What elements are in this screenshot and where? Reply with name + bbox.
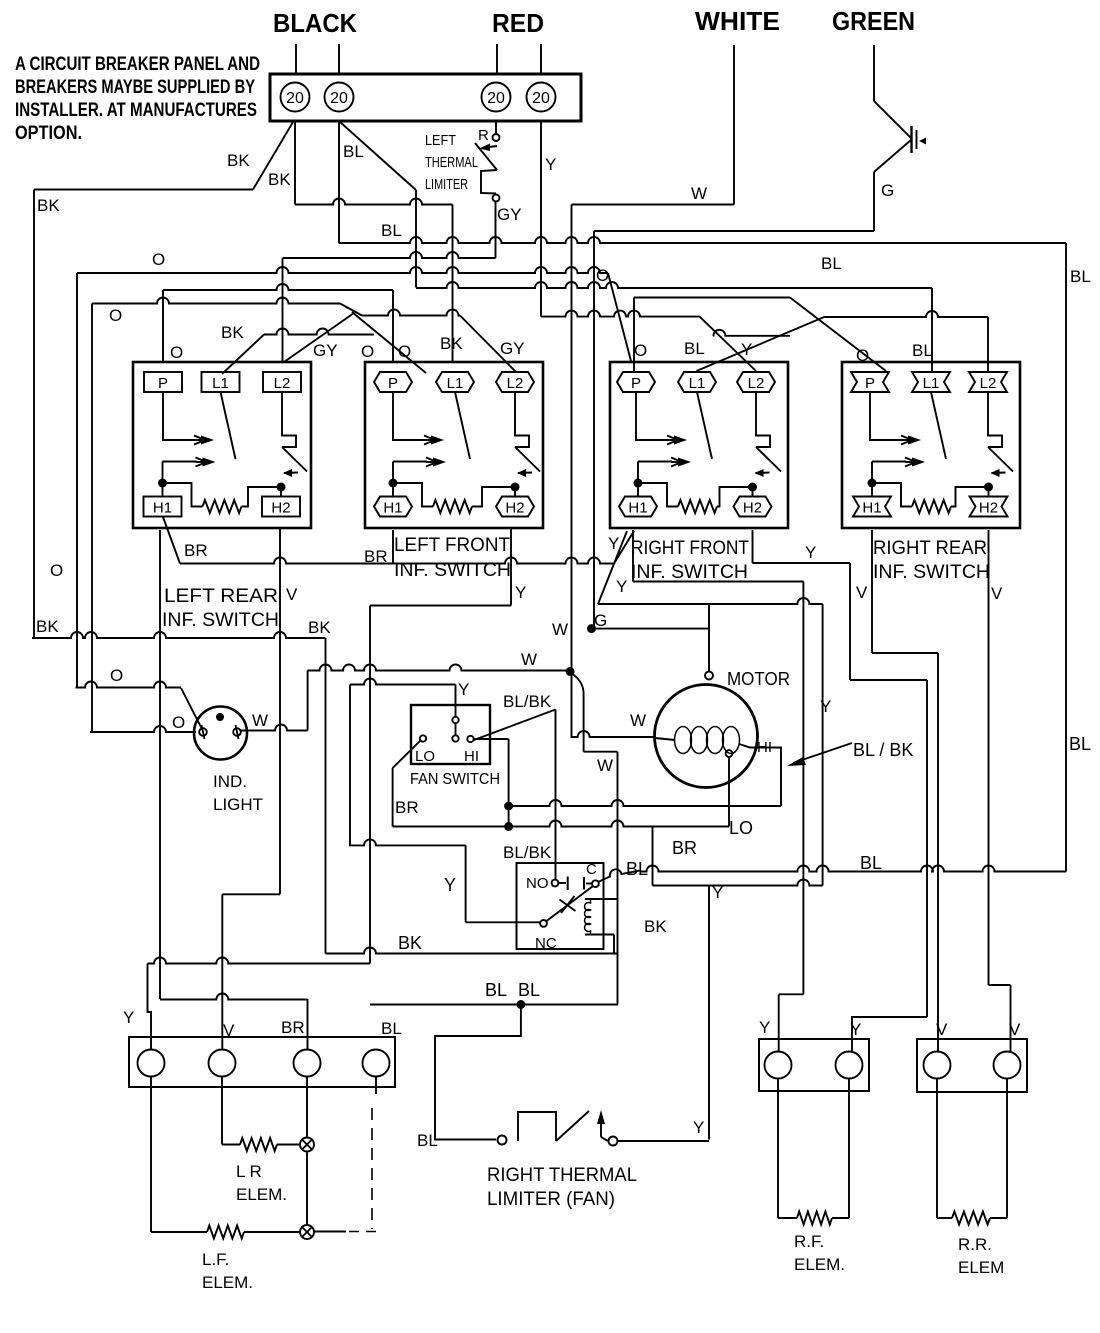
right thermal limiter right terminal (609, 1137, 618, 1146)
wire Y y684 line (350, 679, 456, 685)
right rear inf switch terminal L1 (912, 372, 950, 392)
left front inf switch H1 junction dot (389, 479, 398, 488)
indicator light label (213, 772, 263, 814)
svg-text:Y: Y (545, 155, 556, 174)
label BK (227, 151, 250, 170)
wire BL bus y243 (339, 237, 1067, 243)
indicator light filament dot (216, 713, 224, 721)
svg-text:BR: BR (395, 798, 419, 817)
terminal Y1 (765, 1052, 792, 1079)
wire G from GREEN down (873, 45, 875, 101)
motor label (727, 669, 790, 689)
label BL (381, 1019, 402, 1038)
svg-text:L1: L1 (689, 375, 706, 392)
wire Y diagonal from H1 right-front (598, 531, 627, 604)
wire O bus y303 (92, 298, 340, 304)
svg-text:BL / BK: BL / BK (853, 740, 913, 760)
motor coil bottom terminal (726, 750, 733, 757)
label O (172, 713, 185, 732)
wire Y from breaker 4 down (540, 121, 542, 317)
fan switch top terminal (452, 717, 458, 735)
left front inf switch heater resistor (433, 500, 472, 513)
wire H2 left-front down (510, 528, 512, 606)
wire x370 vertical (369, 606, 371, 964)
svg-text:W: W (630, 711, 646, 730)
svg-text:G: G (881, 181, 894, 200)
left front inf switch L1 blade (455, 392, 470, 459)
svg-text:W: W (252, 711, 268, 730)
wire Y to NC line (466, 921, 540, 923)
svg-text:BL: BL (518, 980, 540, 1000)
svg-text:R.F.: R.F. (794, 1232, 824, 1251)
right rear inf switch L1 blade (931, 392, 946, 459)
svg-text:20: 20 (330, 90, 348, 107)
wire V to LR elem (222, 1077, 240, 1145)
svg-text:GY: GY (500, 339, 525, 358)
wire BR bus y563 (180, 558, 614, 564)
wire Y y316 line (541, 311, 700, 317)
label BL (821, 254, 842, 273)
wire BL diagonal F to L2 right-front (700, 317, 757, 371)
wire diagonal D (352, 312, 426, 373)
label G (594, 611, 607, 630)
label V (1009, 1020, 1021, 1039)
L.F. element label (202, 1250, 253, 1292)
wire O diagonal to light (181, 688, 202, 729)
left rear inf switch L1 blade (221, 392, 236, 459)
svg-text:H2: H2 (271, 500, 290, 517)
left rear inf switch terminal H2 (262, 497, 300, 517)
svg-text:O: O (398, 342, 411, 361)
svg-text:Y: Y (805, 543, 816, 562)
left front inf switch box (365, 362, 543, 528)
left front inf switch H1 contact arm (393, 458, 446, 467)
wire Y from limiter (618, 1140, 710, 1142)
label Y (616, 577, 627, 596)
label BK (644, 917, 667, 936)
svg-text:WHITE: WHITE (695, 6, 780, 36)
svg-text:BL: BL (626, 859, 648, 879)
svg-text:BL: BL (485, 980, 507, 1000)
indicator light left lug (199, 725, 207, 739)
svg-text:P: P (865, 375, 875, 392)
fan switch center terminal (452, 735, 458, 741)
wire BL limiter feed (435, 1005, 521, 1140)
right front inf switch box (610, 362, 788, 528)
svg-text:RIGHT THERMAL: RIGHT THERMAL (487, 1165, 637, 1186)
R.F. element legs (778, 1079, 849, 1219)
wire L1 right-rear drop x932 (931, 288, 933, 372)
left rear inf switch H1 lead (162, 462, 164, 497)
left front inf switch resistor to H2 (472, 487, 515, 507)
junction dot BL (516, 1000, 525, 1009)
wire W from light (241, 725, 308, 731)
svg-text:LEFT FRONT: LEFT FRONT (394, 535, 510, 556)
right rear inf switch terminal H1 (853, 497, 891, 517)
svg-text:Y: Y (123, 1008, 134, 1027)
label O (110, 666, 123, 685)
wire BR drop x392 (392, 768, 394, 827)
right rear inf switch H1 junction dot (868, 479, 877, 488)
wire Y diagonal from L1 right-front (697, 317, 826, 371)
svg-text:RED: RED (492, 8, 544, 38)
motor winding (675, 727, 740, 754)
label BL (518, 980, 540, 1000)
wire G diagonal to ground (874, 101, 911, 138)
left front inf switch H2 lead (514, 487, 516, 497)
svg-text:O: O (110, 666, 123, 685)
wire Y jog to block1 (779, 994, 804, 1051)
right rear inf switch H1 contact arm (872, 458, 925, 467)
wire BLACK line 1 drop (295, 44, 297, 74)
wire O drop to P left-front (392, 290, 394, 362)
svg-text:RIGHT FRONT: RIGHT FRONT (631, 538, 749, 559)
right thermal limiter left terminal (498, 1136, 507, 1145)
relay NO terminal (552, 880, 559, 887)
left front inf switch H2 junction dot (511, 483, 520, 492)
svg-text:O: O (50, 561, 63, 580)
right front inf switch terminal H2 (734, 497, 772, 517)
right front inf switch H1 lead (637, 462, 639, 497)
left front inf switch terminal H1 (374, 497, 412, 517)
wire O bus y290 (163, 284, 393, 290)
label Y (515, 583, 526, 602)
wire BK-BL riser x618 (617, 752, 619, 1005)
wire Y y680 segment (850, 679, 927, 681)
relay C pivot (592, 880, 599, 887)
R.F. element label (794, 1232, 845, 1274)
svg-text:H1: H1 (383, 500, 402, 517)
svg-text:BL/BK: BL/BK (503, 692, 552, 711)
svg-text:BR: BR (364, 547, 388, 566)
svg-text:LEFT: LEFT (425, 132, 456, 149)
svg-text:W: W (521, 650, 537, 669)
wire BL-BK diagonal from HI (474, 710, 556, 741)
label O (634, 341, 647, 360)
motor right lead (739, 744, 781, 806)
right thermal limiter arrow (597, 1110, 608, 1141)
label BK (440, 334, 463, 353)
svg-text:BR: BR (184, 541, 208, 560)
svg-text:BK: BK (37, 196, 60, 215)
relay blade cross (560, 896, 576, 913)
wire O jog y687 (76, 682, 182, 688)
wire Y drop x465 (465, 845, 467, 922)
svg-text:R: R (478, 127, 489, 144)
wire y999 line (160, 994, 308, 1000)
R.R. element legs (937, 1079, 1007, 1219)
right rear inf switch H2 arrow (991, 469, 1006, 477)
wire G vertical to y231 (873, 172, 875, 231)
wire W from WHITE down (733, 45, 735, 205)
wire G diagonal from ground (874, 140, 911, 172)
label GY (500, 339, 525, 358)
wire GY diagonal to L2 left-front (460, 316, 516, 373)
wire W horizontal y204 (572, 204, 735, 206)
left front inf switch L2 blade (515, 447, 540, 472)
svg-text:BL: BL (860, 853, 882, 873)
fan switch box (411, 705, 490, 764)
svg-text:V: V (936, 1020, 948, 1039)
label O (361, 342, 374, 361)
svg-text:INF. SWITCH: INF. SWITCH (162, 610, 279, 631)
wire HI lead (474, 739, 509, 827)
wire BL y1004 line (370, 1004, 618, 1006)
svg-text:H2: H2 (505, 500, 524, 517)
terminal V2 (994, 1052, 1021, 1079)
left rear inf switch H2 junction dot (277, 483, 286, 492)
breaker 20A no.2 (325, 83, 354, 112)
svg-text:INSTALLER. AT MANUFACTURES: INSTALLER. AT MANUFACTURES (15, 100, 257, 121)
left front inf switch terminal L2 (496, 372, 534, 392)
junction dot G-W (587, 624, 596, 633)
terminal BR (294, 1050, 321, 1077)
svg-text:Y: Y (759, 1018, 770, 1037)
svg-text:LIMITER: LIMITER (425, 176, 468, 193)
right rear inf switch resistor wiring (872, 483, 912, 507)
wire GY horizontal y258 (283, 252, 496, 258)
svg-text:FAN SWITCH: FAN SWITCH (410, 771, 500, 788)
wire V drop x222 (221, 894, 223, 1050)
right rear inf switch terminal L2 (969, 372, 1007, 392)
label Y (693, 1118, 704, 1137)
wire Y y886 line (653, 880, 823, 886)
wire BLACK line 2 drop (338, 44, 340, 74)
wire Y y604 line (598, 598, 823, 604)
breaker 20A no.3 (482, 83, 511, 112)
right front inf switch resistor wiring (638, 483, 678, 507)
svg-text:G: G (594, 611, 607, 630)
svg-text:BK: BK (308, 618, 331, 637)
label W (691, 184, 707, 203)
wire motor top stub (708, 604, 710, 671)
wire O left vertical x77 (76, 273, 78, 688)
label G (881, 181, 894, 200)
svg-text:L2: L2 (274, 375, 291, 392)
wire BL y288 line (416, 282, 932, 288)
svg-text:P: P (158, 375, 168, 392)
left front inf switch P contact arm (393, 392, 444, 445)
svg-text:P: P (631, 375, 641, 392)
left rear inf switch terminal P (144, 372, 182, 392)
wire BK horizontal to left edge (34, 189, 253, 191)
wire Y drop to block1 (148, 964, 152, 1051)
svg-text:BR: BR (281, 1018, 305, 1037)
label O (856, 346, 869, 365)
svg-text:V: V (286, 585, 298, 604)
wire BL-BK drop x552 (555, 710, 557, 880)
right front inf switch P contact arm (636, 392, 687, 445)
wire H2 right-front down (752, 530, 754, 563)
right front inf switch H2 arrow (755, 469, 770, 477)
label BR (364, 547, 388, 566)
wire O from breaker 1 down (294, 121, 296, 205)
svg-text:BL/BK: BL/BK (503, 843, 552, 862)
wire BL y336 segment (713, 330, 790, 336)
wire BL from breaker 2 down (338, 121, 340, 243)
wire G vertical x594 (593, 231, 595, 629)
label Y (850, 1020, 861, 1039)
svg-text:NO: NO (526, 875, 549, 892)
wire label RED (492, 8, 544, 38)
wire Y fan riser (455, 685, 457, 717)
L.R. element resistor (240, 1138, 277, 1151)
wire BL stub below block (375, 1077, 377, 1095)
note text (15, 54, 260, 144)
wire BK left bus vertical (33, 190, 35, 639)
wire G horizontal y231 (594, 230, 874, 232)
svg-text:LO: LO (729, 818, 753, 838)
svg-text:Y: Y (693, 1118, 704, 1137)
R.R. element label (958, 1235, 1004, 1277)
label V (991, 584, 1003, 603)
wire Y drop x803 (802, 582, 804, 995)
svg-text:OPTION.: OPTION. (15, 123, 82, 144)
label BL (381, 221, 402, 240)
svg-text:THERMAL: THERMAL (425, 154, 478, 171)
wire BR diagonal from H1 left-rear (163, 517, 180, 564)
LF elem terminal (300, 1225, 314, 1239)
junction dot W (566, 667, 575, 676)
ground symbol (912, 126, 927, 153)
label O (109, 306, 122, 325)
label BL (912, 341, 933, 360)
svg-text:H1: H1 (153, 500, 172, 517)
wire BK y953 line (326, 948, 619, 954)
label W (521, 650, 537, 669)
label BL/BK (503, 692, 552, 711)
left rear inf switch H2 lead (280, 487, 282, 497)
wire V jog to block4 (989, 985, 1011, 1051)
label O (398, 342, 411, 361)
label BL (1070, 267, 1091, 286)
right front inf switch H1 contact arm (638, 458, 691, 467)
label Y (458, 680, 469, 699)
right front inf switch H2 lead (752, 487, 754, 497)
wire Y riser below H1 right-front (632, 530, 634, 582)
label V (856, 583, 868, 602)
left rear inf switch H2 arrow (283, 469, 298, 477)
relay coil (585, 899, 618, 935)
wire LF elem link (244, 1231, 300, 1233)
label O (596, 266, 609, 285)
breaker 20A no.1 (281, 83, 310, 112)
svg-text:V: V (991, 584, 1003, 603)
label LO (415, 748, 435, 765)
label Y (545, 155, 556, 174)
left thermal limiter text (425, 132, 478, 193)
fan switch HI terminal (467, 736, 473, 742)
label V (286, 585, 298, 604)
label BR (672, 838, 697, 858)
left rear inf switch L2 blade (282, 447, 307, 472)
left front inf switch resistor wiring (393, 483, 433, 507)
label Y (608, 534, 619, 553)
left thermal limiter blade (475, 143, 497, 170)
svg-text:O: O (152, 250, 165, 269)
label BK (36, 617, 59, 636)
left thermal limiter jog (481, 170, 497, 194)
wire H1 left-front stub (392, 530, 394, 564)
wire Y y845 line (349, 839, 466, 845)
wire H2 left-front jog west (370, 605, 511, 607)
svg-text:BL: BL (417, 1131, 438, 1150)
left rear inf switch P contact arm (163, 392, 214, 445)
relay box (517, 863, 604, 949)
wire H1 right-rear down (871, 530, 873, 653)
right front inf switch L2 blade (756, 447, 781, 472)
wire Y jog up x634 (633, 298, 635, 373)
wire O y315 segment (362, 310, 460, 316)
svg-text:O: O (172, 713, 185, 732)
svg-text:H2: H2 (979, 500, 998, 517)
svg-text:O: O (109, 306, 122, 325)
right front inf switch L1 blade (697, 392, 712, 459)
wire O diagonal A to P right-rear (790, 298, 886, 372)
left rear inf switch resistor wiring (163, 483, 203, 507)
right rear inf switch H1 lead (871, 462, 873, 497)
svg-text:Y: Y (608, 534, 619, 553)
left front inf switch terminal H2 (496, 497, 534, 517)
label HI (757, 739, 772, 756)
left thermal limiter top terminal (493, 121, 500, 141)
terminal V1 (924, 1052, 951, 1079)
wire W y629 line (592, 628, 710, 630)
label Y (444, 875, 456, 895)
wire BK diagonal up from left-rear box (222, 335, 264, 375)
svg-text:O: O (361, 342, 374, 361)
svg-text:W: W (552, 620, 568, 639)
fan switch label (410, 771, 500, 788)
wire BR column (306, 1077, 308, 1226)
svg-text:W: W (691, 184, 707, 203)
left rear inf switch terminal L2 (263, 372, 301, 392)
R.R. element resistor (952, 1212, 990, 1225)
L.F. element resistor (207, 1226, 244, 1239)
wire BR y827 line (393, 821, 729, 827)
label Y (805, 543, 816, 562)
svg-text:BK: BK (227, 151, 250, 170)
right rear inf switch terminal H2 (970, 497, 1008, 517)
label BL / BK (853, 740, 913, 760)
label O (50, 561, 63, 580)
svg-text:L2: L2 (980, 375, 997, 392)
right front inf switch H2 junction dot (748, 483, 757, 492)
label BL (684, 339, 705, 358)
svg-text:RIGHT REAR: RIGHT REAR (873, 538, 987, 559)
label NC (535, 935, 557, 952)
svg-text:BK: BK (398, 933, 422, 953)
wire W curve from dot (571, 673, 584, 752)
motor left lead (655, 738, 675, 740)
wire Y drop x350 (349, 685, 351, 846)
wire BK drop x325 (325, 638, 327, 954)
label LO (729, 818, 753, 838)
svg-text:ELEM.: ELEM. (236, 1185, 287, 1204)
terminal BL (363, 1050, 390, 1077)
label Y (759, 1018, 770, 1037)
svg-text:ELEM.: ELEM. (202, 1273, 253, 1292)
svg-text:20: 20 (487, 90, 505, 107)
svg-text:V: V (223, 1021, 235, 1040)
label W (552, 620, 568, 639)
svg-text:V: V (856, 583, 868, 602)
left rear inf switch box (133, 362, 311, 528)
junction dot BR (504, 822, 513, 831)
wire W vertical x571 (571, 205, 573, 738)
wire BR drop x306 (307, 999, 309, 1049)
svg-text:BL: BL (912, 341, 933, 360)
